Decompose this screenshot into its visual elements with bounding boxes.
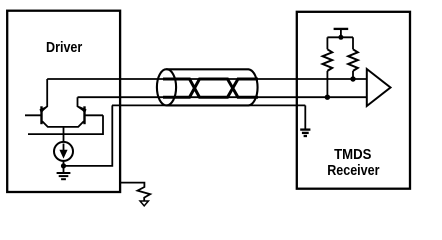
wire: shield to receiver ground: [304, 105, 306, 129]
wire: termination rail: [327, 36, 353, 38]
driver box: [7, 11, 120, 192]
power supply terminal (AVcc): [334, 29, 349, 37]
ground (chassis arrow, driver side): [140, 201, 148, 206]
transistor Q2 (right of differential pair): [64, 97, 104, 127]
twisted pair wire A: [163, 79, 258, 97]
node: R2 to line 1: [350, 76, 355, 81]
receiver box: [297, 12, 410, 189]
wire: differential line 2 (bottom): [78, 96, 367, 98]
twisted pair wire B: [163, 79, 258, 97]
receiver amplifier U1: [367, 69, 391, 106]
transistor Q1 (left of differential pair): [25, 79, 64, 127]
cable shield cylinder: [167, 69, 258, 105]
svg-text:Driver: Driver: [46, 40, 83, 56]
resistor R2 (right termination): [348, 37, 358, 79]
wire: differential line 1 (top): [47, 78, 366, 80]
wire: Q2 base bias wire: [28, 115, 103, 134]
ground (receiver): [300, 130, 310, 136]
resistor R1 (left termination): [323, 37, 333, 97]
node: supply rail junction: [338, 35, 343, 40]
current source I1: [54, 142, 73, 161]
node: tail/ground junction: [61, 163, 66, 168]
wire: driver box to chassis ground: [120, 183, 150, 201]
node: R1 to line 2: [325, 95, 330, 100]
wire: current source to node: [63, 161, 65, 166]
svg-text:Receiver: Receiver: [327, 163, 380, 179]
wire: shield/ground line: [112, 104, 305, 106]
wire: node to shield riser: [64, 105, 113, 165]
svg-text:TMDS: TMDS: [334, 147, 371, 163]
cable end ellipse: [157, 69, 176, 105]
TMDS receiver label: [327, 147, 380, 179]
wire: emitter tail: [63, 127, 65, 142]
ground (driver internal): [57, 166, 71, 179]
